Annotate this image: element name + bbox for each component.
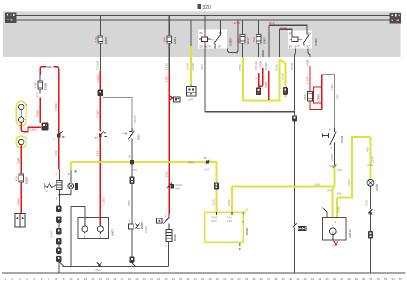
svg-text:16: 16 (203, 156, 207, 160)
bracket A06 red (40, 65, 58, 75)
svg-text:120: 120 (227, 219, 232, 223)
yellow stub into lamp column x71 (68, 162, 76, 176)
svg-text:11: 11 (77, 277, 80, 281)
svg-text:86: 86 (200, 31, 204, 35)
svg-text:E051: E051 (173, 37, 177, 44)
svg-text:36: 36 (260, 277, 264, 281)
lamp 2 inside A607 (82, 218, 88, 239)
wire from bus to fuse E005 and down, column x100 (99, 16, 101, 71)
relay G008 coil (199, 37, 214, 42)
svg-text:K200: K200 (35, 110, 39, 117)
svg-text:004: 004 (212, 219, 217, 223)
wire 1X5 red, column x169 (164, 63, 169, 214)
svg-text:E028: E028 (44, 83, 48, 90)
svg-text:85: 85 (200, 45, 204, 49)
fuse E117 with wire (236, 20, 250, 57)
wire x370 to bottom (370, 238, 372, 273)
long horizontal wire y112 (205, 111, 295, 113)
chain to ground bus diagonal (60, 262, 64, 266)
fuse E005 (94, 36, 108, 44)
svg-text:19: 19 (135, 277, 139, 281)
power distribution band (3, 12, 401, 58)
svg-text:42: 42 (304, 277, 308, 281)
actuator zigzag (45, 183, 57, 193)
svg-text:35: 35 (252, 277, 256, 281)
svg-text:2750: 2750 (238, 64, 242, 71)
connector on red 1530 (256, 88, 261, 96)
svg-text:85: 85 (289, 44, 293, 48)
svg-text:320: 320 (202, 5, 211, 11)
svg-text:D800: D800 (245, 227, 249, 235)
svg-text:2435: 2435 (275, 64, 279, 71)
red jumper from oval to connector K200 (21, 122, 41, 131)
header label D320 (198, 4, 211, 11)
wire red from CB26 down and around (310, 75, 322, 110)
svg-text:3145: 3145 (227, 199, 231, 206)
svg-text:24: 24 (172, 277, 176, 281)
svg-text:3: 3 (19, 277, 21, 281)
svg-text:C240: C240 (191, 62, 195, 70)
wire 2150 from C036 to splice G46 (330, 151, 335, 166)
svg-text:1: 1 (55, 172, 57, 176)
svg-text:C007: C007 (49, 230, 53, 238)
svg-text:10: 10 (69, 277, 73, 281)
svg-text:2: 2 (373, 210, 375, 214)
svg-text:47: 47 (340, 277, 344, 281)
ground bus bottom left (63, 265, 169, 267)
svg-text:40: 40 (289, 277, 293, 281)
svg-text:C036: C036 (340, 135, 344, 143)
lamp ground link (56, 189, 71, 206)
branch connector symbol on x169 at y100 (169, 96, 180, 103)
wire from bus to fuse E051, column x169 (168, 16, 170, 71)
junction with yellow 2400 (130, 160, 137, 172)
svg-text:2150: 2150 (330, 154, 334, 161)
svg-text:1: 1 (4, 277, 6, 281)
svg-text:9: 9 (63, 277, 65, 281)
svg-text:1X5: 1X5 (164, 171, 168, 177)
wire pin1 into solenoid (59, 169, 61, 181)
svg-text:1X3: 1X3 (96, 150, 100, 156)
splice G17 on 2400 (203, 156, 209, 172)
svg-text:E209: E209 (24, 177, 28, 184)
svg-text:1: 1 (129, 219, 131, 223)
svg-text:29: 29 (208, 277, 212, 281)
svg-text:2146: 2146 (347, 179, 351, 186)
svg-text:E005: E005 (104, 37, 108, 44)
svg-text:1W0: 1W0 (16, 158, 20, 165)
wire relay G002 pin87 down (308, 49, 310, 58)
svg-text:4: 4 (26, 103, 28, 107)
yellow 3125 down to D800 (211, 162, 216, 215)
fuse CB26 inline with red highlight box (303, 87, 321, 103)
svg-text:44: 44 (318, 277, 322, 281)
svg-text:1: 1 (254, 77, 258, 79)
svg-text:C04B: C04B (264, 62, 268, 70)
wire 1530 red from fuse E007 (254, 61, 259, 88)
relay G002 contact (303, 30, 309, 45)
svg-text:A610: A610 (375, 184, 379, 191)
svg-text:15A: 15A (303, 95, 307, 100)
svg-text:C47: C47 (204, 168, 210, 172)
wire B040 to ground bus (167, 242, 169, 267)
svg-text:2: 2 (165, 243, 167, 247)
svg-text:48: 48 (347, 277, 351, 281)
svg-text:25: 25 (179, 277, 183, 281)
svg-text:87F: 87F (295, 44, 300, 48)
svg-text:18: 18 (128, 277, 132, 281)
svg-text:304B: 304B (290, 63, 294, 70)
svg-text:8: 8 (55, 277, 57, 281)
wire 1W0 red below circle (16, 145, 21, 174)
connector box right (390, 13, 402, 24)
svg-text:5: 5 (34, 277, 36, 281)
svg-text:2: 2 (68, 172, 70, 176)
svg-text:7.5A: 7.5A (94, 36, 98, 42)
yellow horizontal y185.5 (232, 182, 335, 186)
svg-text:2751: 2751 (234, 21, 241, 25)
connector block for K200 wires (42, 123, 49, 131)
svg-text:46: 46 (333, 277, 337, 281)
svg-text:54: 54 (391, 277, 395, 281)
wire relay G002 pin85 down (295, 49, 296, 58)
svg-text:1: 1 (335, 220, 337, 224)
svg-text:55: 55 (399, 277, 403, 281)
svg-text:21: 21 (150, 277, 154, 281)
svg-text:7.5A: 7.5A (34, 82, 38, 88)
lamp A610 (367, 179, 379, 191)
lamp unit box A6070 (323, 218, 352, 241)
inline connector symbol on x100 (95, 131, 107, 140)
yellow segment splice to splice (327, 166, 342, 195)
svg-text:15A: 15A (163, 37, 167, 42)
svg-text:240: 240 (175, 187, 180, 191)
svg-text:436: 436 (365, 147, 369, 152)
connector on x132 (129, 177, 134, 184)
svg-text:1X23: 1X23 (96, 75, 100, 82)
yellow 3145 down to D800 (227, 186, 232, 214)
svg-text:B040: B040 (173, 234, 177, 241)
splice on wire 1X3 x58 (53, 131, 64, 142)
branch-off symbol on x294.5 at y225 (293, 224, 307, 231)
svg-text:2: 2 (12, 277, 14, 281)
svg-text:87: 87 (307, 44, 311, 48)
svg-text:K200: K200 (30, 128, 37, 132)
indicator lamp left cluster (68, 183, 78, 190)
wire 1X23 red, column x100 (96, 61, 101, 90)
pin wire into A6070 top left (322, 208, 327, 218)
bus bar 15 (14, 19, 392, 21)
fuse E028 on bracket left leg (34, 75, 48, 97)
wire 1500 red right leg down (54, 75, 59, 176)
svg-text:7: 7 (53, 138, 55, 142)
control unit D800 yellow box (205, 209, 249, 250)
svg-text:1X3: 1X3 (54, 150, 58, 156)
red wire into A607 lamp1 (99, 218, 101, 227)
svg-text:K006: K006 (16, 198, 20, 205)
svg-text:22: 22 (157, 277, 161, 281)
svg-text:7: 7 (48, 277, 50, 281)
red mark below A6070 (334, 241, 338, 246)
wire K200 red left leg down (35, 98, 40, 124)
switch C120 on x169 (156, 213, 169, 223)
svg-text:34: 34 (245, 277, 249, 281)
thermo switch B008 (129, 222, 148, 233)
connector box left (5, 13, 17, 24)
resistor B040 (165, 224, 177, 248)
lamp box A607 ground wire over-and-down (71, 207, 85, 267)
wire relay G008 pin30 to bus (220, 20, 222, 30)
wire below lamp A610 (365, 186, 371, 209)
yellow net right: riser x352 (337, 136, 371, 217)
wire 111F red below band (264, 62, 269, 100)
svg-text:27: 27 (194, 277, 198, 281)
svg-text:G46: G46 (367, 163, 373, 167)
svg-text:28: 28 (201, 277, 205, 281)
svg-text:30: 30 (216, 277, 220, 281)
svg-text:3: 3 (56, 197, 58, 201)
svg-text:E007: E007 (262, 37, 266, 44)
svg-text:39: 39 (282, 277, 286, 281)
svg-text:2435: 2435 (281, 73, 285, 80)
svg-text:23: 23 (164, 277, 168, 281)
svg-text:2146: 2146 (337, 206, 341, 213)
svg-text:G002: G002 (314, 38, 318, 46)
svg-text:49: 49 (355, 277, 359, 281)
wire 2435 yellow jog to connector (279, 60, 285, 98)
svg-text:3125: 3125 (211, 199, 215, 206)
svg-text:87: 87 (95, 136, 99, 140)
svg-text:2: 2 (46, 189, 48, 193)
wire to indicator lamp (70, 171, 72, 184)
svg-text:1830: 1830 (164, 63, 168, 70)
svg-text:1430: 1430 (305, 59, 309, 66)
wire 2140 yellow column x191 (186, 20, 195, 87)
wire 2751 from bus to relay pin87 (228, 20, 241, 53)
splice symbol on x370 (368, 209, 375, 215)
svg-text:1 W1: 1 W1 (96, 110, 100, 117)
svg-text:A6070: A6070 (348, 229, 352, 238)
yellow drop to A6070 left pin (333, 186, 335, 217)
svg-text:*A06: *A06 (46, 65, 53, 69)
wire 2750 yellow U from fuse E117 (238, 57, 280, 100)
svg-text:CB26: CB26 (316, 94, 320, 102)
connector pair in yellow oval (16, 101, 27, 126)
fuse E007 with wire (252, 20, 266, 57)
svg-text:4/19: 4/19 (365, 200, 369, 206)
grid scale numbers (4, 277, 402, 281)
svg-text:52: 52 (377, 277, 381, 281)
svg-text:38: 38 (274, 277, 278, 281)
svg-text:H4: H4 (123, 132, 127, 136)
connector chain x58.8 (49, 206, 61, 263)
svg-text:2140: 2140 (186, 63, 190, 70)
svg-text:87: 87 (218, 45, 222, 49)
wire 3045 relay G002 coil feed (279, 26, 291, 57)
wire 2400 yellow horizontal y162 (71, 160, 218, 164)
svg-text:1 500: 1 500 (54, 103, 58, 111)
svg-text:31: 31 (223, 277, 227, 281)
lamp box A607 (78, 218, 115, 239)
wire 111F red top (268, 21, 307, 57)
svg-text:G008: G008 (228, 38, 232, 46)
svg-text:C4: C4 (36, 93, 40, 97)
svg-text:13: 13 (91, 277, 95, 281)
svg-text:37: 37 (267, 277, 271, 281)
svg-text:51: 51 (369, 277, 373, 281)
switch H4 on brown branch (123, 128, 140, 142)
terminal box bottom left (15, 214, 25, 228)
svg-text:C026: C026 (144, 225, 148, 233)
connector on x370 (368, 231, 373, 238)
svg-text:15A30: 15A30 (254, 61, 258, 70)
svg-text:33: 33 (238, 277, 242, 281)
svg-text:1W0: 1W0 (264, 82, 268, 89)
long dark wire x294.5 pin85 down (290, 57, 295, 273)
relay G002 box (288, 30, 318, 48)
svg-text:12: 12 (84, 277, 88, 281)
relay G002 coil (289, 37, 303, 42)
svg-text:G93: G93 (137, 134, 141, 140)
wire 4/05 down x132 (127, 184, 132, 224)
svg-text:476: 476 (337, 168, 342, 172)
lamp 1 inside A607 (97, 226, 103, 238)
svg-text:15A: 15A (236, 37, 240, 42)
relay G008 contact (214, 30, 221, 49)
svg-text:50: 50 (362, 277, 366, 281)
svg-text:4: 4 (26, 277, 28, 281)
svg-text:246: 246 (315, 182, 320, 186)
svg-text:53: 53 (384, 277, 388, 281)
wire 111F brown horizontal to C036 (322, 75, 340, 128)
svg-text:2400: 2400 (188, 160, 195, 164)
connector on yellow 3125 (214, 182, 219, 189)
svg-text:45: 45 (326, 277, 330, 281)
svg-text:28A: 28A (95, 268, 100, 272)
svg-text:15: 15 (106, 277, 110, 281)
relay G008 box (198, 30, 232, 49)
wire 54 dark down from H4 (127, 142, 132, 177)
switch C036 (323, 128, 345, 151)
svg-text:54/15: 54/15 (133, 115, 137, 123)
lamp inside A6070 (330, 228, 337, 240)
svg-text:6: 6 (329, 128, 331, 132)
wire to connector x370 (370, 215, 372, 232)
yellow drop to lamp A610 (365, 137, 374, 180)
wire 1430 red from relay G002 pin87 (305, 59, 310, 91)
svg-text:2A0: 2A0 (188, 98, 194, 102)
svg-text:43: 43 (311, 277, 315, 281)
svg-text:54/4: 54/4 (200, 64, 204, 70)
wire 1W1 red, column x100 (96, 96, 101, 131)
single connector circle highlighted (16, 136, 26, 147)
connector on x294.5 (292, 115, 297, 121)
wire relay G008 coil to bus and down to y112 (200, 16, 205, 113)
svg-text:41: 41 (296, 277, 300, 281)
connector on yellow 2435 (283, 87, 288, 95)
svg-text:15A: 15A (252, 37, 256, 42)
svg-text:1N30: 1N30 (258, 60, 262, 68)
splice G46/476 (329, 164, 342, 172)
svg-text:1 115: 1 115 (102, 197, 106, 205)
svg-text:5: 5 (331, 146, 333, 150)
svg-text:87F: 87F (206, 45, 211, 49)
svg-text:41A: 41A (15, 176, 19, 181)
svg-text:111F: 111F (268, 21, 275, 25)
wire branch 54/15 brown to H4 (103, 97, 137, 128)
ground point 28A (95, 262, 102, 272)
svg-text:32: 32 (230, 277, 234, 281)
fuse E209 inline (15, 174, 29, 184)
wire red to terminal box (16, 182, 21, 214)
solenoid valve element (56, 181, 62, 190)
svg-text:26: 26 (186, 277, 190, 281)
bottom border line (2, 272, 406, 274)
svg-text:470: 470 (336, 94, 340, 99)
svg-text:P5: P5 (133, 168, 137, 172)
diagonal to ground bus (132, 263, 136, 267)
connector on wire x100 (98, 90, 103, 97)
svg-text:436: 436 (337, 192, 342, 196)
svg-text:A607: A607 (111, 229, 115, 236)
wire 1N30 red bend (258, 50, 263, 88)
connector E90 on yellow 2140 (187, 84, 196, 101)
svg-text:17: 17 (121, 277, 125, 281)
svg-text:16: 16 (113, 277, 117, 281)
svg-text:6: 6 (41, 277, 43, 281)
chain drop to border line (58, 262, 60, 273)
bus bar 30 (14, 15, 392, 17)
wire down to connector x132 (131, 229, 133, 256)
svg-text:0.5SW: 0.5SW (96, 61, 100, 70)
svg-text:14: 14 (99, 277, 103, 281)
svg-text:54: 54 (127, 154, 131, 158)
wire 1X3 red, column x100 (96, 137, 106, 218)
svg-text:20: 20 (143, 277, 147, 281)
connector x132 bottom (130, 257, 135, 263)
svg-text:111F: 111F (330, 83, 334, 90)
svg-text:1 147: 1 147 (305, 76, 309, 84)
svg-text:1: 1 (165, 213, 167, 217)
svg-text:4/05: 4/05 (127, 200, 131, 206)
splice X105 on x169 (167, 183, 183, 191)
svg-text:E117: E117 (246, 37, 250, 44)
fuse E051 (163, 36, 177, 44)
svg-text:1X5: 1X5 (165, 76, 169, 82)
